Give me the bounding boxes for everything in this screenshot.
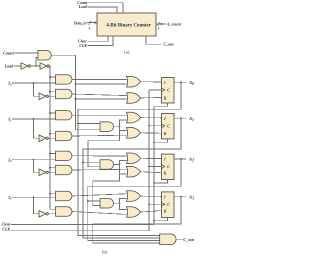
OR gate K3 bbox=[127, 207, 141, 218]
svg-text:C_out: C_out bbox=[183, 237, 195, 242]
wire chain junction up to OR J1 bottom input bbox=[120, 120, 127, 127]
wire CLK rail tap to FF2 C input bbox=[149, 166, 162, 168]
JK flip-flop FF2 bbox=[162, 154, 175, 180]
svg-text:A_count: A_count bbox=[166, 21, 182, 26]
AND gate J3 load term (Load AND I3) bbox=[56, 191, 73, 200]
wire chain junction down to OR K3 input bbox=[120, 203, 127, 209]
AND gate J1 load term (Load AND I1) bbox=[56, 110, 73, 119]
wire Load to block top bbox=[87, 7, 117, 13]
svg-text:I1: I1 bbox=[7, 117, 12, 123]
wire Load rail tap to load AND J0 top input bbox=[50, 76, 56, 78]
AND gate CH2 count chain bbox=[100, 160, 114, 170]
clock edge triangle of FF2 bbox=[162, 165, 165, 169]
wire C_out from block bottom bbox=[146, 36, 162, 44]
svg-text:I2: I2 bbox=[7, 157, 12, 163]
wire count-enable vertical down to chain AND CH1 lower input bbox=[76, 55, 101, 130]
wire I1 input line to AND J1 bbox=[12, 118, 55, 120]
wire FF3 output to A3 node bbox=[174, 196, 186, 198]
wire Count input to AND gate G1 bbox=[14, 52, 38, 54]
wire FF2 output to A2 node bbox=[174, 158, 186, 160]
wire chain junction up to OR J3 bottom input bbox=[120, 198, 127, 203]
inverter G2 (Load invert) bbox=[21, 63, 28, 70]
wire AND K2 output to OR K2 input bbox=[72, 168, 127, 171]
wire OR K3 output to flip-flop FF3 K input bbox=[141, 211, 162, 212]
wire OR K1 output to flip-flop FF1 K input bbox=[141, 132, 162, 134]
svg-text:K: K bbox=[163, 210, 167, 214]
wire Count to block top bbox=[88, 3, 123, 13]
wire chain junction up to OR J2 bottom input bbox=[120, 161, 127, 165]
clock edge triangle of FF1 bbox=[162, 124, 165, 128]
wire chain stage2 continuation down to chain AND CH3 lower input bbox=[93, 174, 120, 206]
OR gate K2 bbox=[127, 166, 141, 177]
wire G1 output to count-enable vertical bbox=[51, 54, 75, 56]
wire Load rail tap to load AND J1 top input bbox=[50, 112, 56, 114]
clock edge triangle of FF3 bbox=[162, 202, 165, 206]
OR gate J1 bbox=[127, 112, 141, 123]
OR gate K1 bbox=[127, 128, 141, 139]
wire OR K2 output to flip-flop FF2 K input bbox=[141, 172, 162, 173]
wire I3 input line to AND J3 bbox=[12, 196, 55, 198]
wire inverter G41 output to AND K1 lower input bbox=[47, 137, 55, 139]
clock edge triangle of FF0 bbox=[162, 88, 165, 92]
wire chain junction down to OR K1 input bbox=[120, 127, 127, 131]
wire AND K0 output to OR K0 input bbox=[72, 94, 127, 96]
wire I0 branch down to inverter G40 bbox=[34, 83, 40, 96]
wire Load rail tap to load AND K0 top input bbox=[50, 91, 56, 93]
JK flip-flop FF3 bbox=[162, 192, 175, 218]
wire C_out gate output bbox=[176, 238, 182, 240]
node junction I1 branch bbox=[33, 118, 35, 120]
wire Load rail tap to load AND K2 top input bbox=[50, 167, 56, 169]
wire I3 branch down to inverter G43 bbox=[34, 197, 40, 214]
wire AND K1 output to OR K1 input bbox=[72, 134, 127, 137]
node junction I2 branch bbox=[33, 159, 35, 161]
AND gate K2 load term (Load AND not-I2) bbox=[56, 165, 72, 174]
wire AND J0 output to OR J0 top input bbox=[72, 78, 127, 80]
inverter G42 (I2 complement) bbox=[39, 169, 46, 176]
svg-text:J: J bbox=[164, 158, 166, 162]
node junction chain stage 2 bbox=[119, 164, 121, 166]
wire FF1 output to A1 node bbox=[174, 117, 186, 119]
JK flip-flop FF0 bbox=[162, 78, 175, 104]
wire CLK rail tap to FF0 C input bbox=[149, 89, 162, 91]
wire count-enable tap to OR K0 bottom input bbox=[76, 98, 127, 100]
wire AND J3 output to OR J3 top input bbox=[72, 194, 127, 196]
wire I2 input line to AND J2 bbox=[12, 159, 55, 161]
svg-text:I0: I0 bbox=[7, 81, 12, 87]
bus slash and width 4 label on Data_in bbox=[89, 21, 91, 25]
wire A3 feedback lane down to C_out gate bbox=[93, 197, 181, 243]
svg-text:(a): (a) bbox=[124, 50, 130, 55]
AND gate J2 load term (Load AND I2) bbox=[56, 151, 73, 160]
AND gate G5 carry output C_out bbox=[160, 234, 176, 245]
node junction chain stage 3 bbox=[119, 202, 121, 204]
svg-text:CLK: CLK bbox=[79, 44, 87, 48]
wire A0 feedback lane down to C_out gate bbox=[78, 82, 181, 235]
wire Load rail tap to load AND K1 top input bbox=[50, 133, 56, 135]
svg-text:4: 4 bbox=[89, 27, 91, 31]
svg-text:Load: Load bbox=[78, 5, 87, 9]
wire chain AND CH2 output to junction bbox=[114, 164, 120, 166]
svg-text:4-Bit Binary Counter: 4-Bit Binary Counter bbox=[106, 24, 151, 29]
wire Load input to inverter G2 bbox=[14, 65, 21, 67]
wire CLK input line bbox=[11, 230, 149, 232]
wire count-enable tap to OR J0 bottom input bbox=[76, 83, 127, 85]
wire CLK rail tap to FF3 C input bbox=[149, 203, 162, 205]
OR gate J2 bbox=[127, 153, 141, 164]
wire I0 input line to AND J0 bbox=[12, 82, 55, 84]
AND gate CH1 count chain bbox=[100, 122, 113, 131]
wire inverter G2 output to inverter G3 bbox=[29, 65, 40, 67]
wire AND J1 output to OR J1 top input bbox=[72, 114, 127, 116]
svg-text:C_out: C_out bbox=[164, 42, 175, 47]
wire A0 feedback tap to chain AND CH1 upper input bbox=[78, 123, 100, 125]
svg-text:CLK: CLK bbox=[2, 228, 10, 232]
wire chain stage1 continuation down to chain AND CH2 lower input bbox=[88, 130, 120, 166]
node junction A0 feedback bbox=[180, 81, 182, 83]
node junction chain stage 1 bbox=[119, 126, 121, 128]
inverter G40 (I0 complement) bbox=[39, 93, 46, 100]
bus slash and width 4 label on A_count bbox=[157, 22, 159, 26]
inverter G41 (I1 complement) bbox=[39, 135, 46, 142]
AND gate G1 (Count AND not-Load) bbox=[38, 50, 51, 60]
wire inverter G3 output to Load rail bbox=[48, 66, 50, 209]
wire Clear input line bbox=[11, 224, 154, 226]
wire CLK rail tap to FF1 C input bbox=[149, 125, 162, 127]
wire FF1 clear loop to Clear rail bbox=[154, 139, 168, 142]
wire CLK rail vertical bbox=[148, 90, 150, 231]
OR gate K0 bbox=[127, 93, 141, 104]
wire OR K0 output to flip-flop FF0 K input bbox=[141, 96, 162, 99]
svg-text:K: K bbox=[163, 132, 167, 136]
AND gate K0 load term (Load AND not-I0) bbox=[56, 89, 72, 98]
svg-text:J: J bbox=[164, 195, 166, 199]
AND gate J0 load term (Load AND I0) bbox=[56, 75, 73, 84]
wire A2 feedback tap to chain AND CH3 upper input bbox=[88, 200, 100, 202]
wire AND K3 output to OR K3 input bbox=[72, 212, 127, 215]
svg-text:J: J bbox=[164, 81, 166, 85]
wire chain AND CH1 output to junction bbox=[114, 126, 120, 128]
wire inverter G43 output to AND K3 lower input bbox=[47, 213, 55, 215]
wire Load rail tap to load AND J2 top input bbox=[50, 153, 56, 155]
svg-text:Clear: Clear bbox=[78, 40, 87, 44]
wire Load-not up into AND gate G1 lower input bbox=[36, 58, 38, 66]
svg-text:4: 4 bbox=[158, 27, 160, 31]
wire A1 feedback lane down to C_out gate bbox=[83, 118, 181, 238]
svg-text:Clear: Clear bbox=[2, 223, 11, 227]
node junction I3 branch bbox=[33, 196, 35, 198]
svg-text:Count: Count bbox=[3, 50, 15, 55]
wire I2 branch down to inverter G42 bbox=[34, 160, 40, 173]
svg-text:K: K bbox=[163, 172, 167, 176]
svg-text:Data_in: Data_in bbox=[73, 22, 87, 26]
inverter G43 (I3 complement) bbox=[39, 211, 46, 218]
node junction I0 branch bbox=[33, 82, 35, 84]
wire OR J3 output to flip-flop FF3 J input bbox=[141, 195, 162, 197]
wire CLK to block bottom bbox=[87, 36, 113, 46]
OR gate J0 bbox=[127, 76, 141, 87]
wire A1 feedback tap to chain AND CH2 upper input bbox=[83, 161, 100, 163]
wire A2 feedback lane down to C_out gate bbox=[88, 159, 181, 241]
wire Clear rail vertical bbox=[153, 106, 155, 224]
wire Load rail tap to load AND J3 top input bbox=[50, 193, 56, 195]
wire chain AND CH3 output to junction bbox=[114, 202, 120, 204]
wire A_count bus out of block with arrowhead bbox=[156, 23, 166, 25]
svg-text:Load: Load bbox=[3, 63, 14, 68]
wire inverter G42 output to AND K2 lower input bbox=[47, 171, 55, 173]
AND gate K3 load term (Load AND not-I3) bbox=[56, 207, 73, 216]
OR gate J3 bbox=[127, 191, 141, 202]
wire chain junction down to OR K2 input bbox=[120, 165, 127, 175]
wire AND J2 output to OR J2 top input bbox=[72, 155, 127, 157]
wire FF0 output to A0 node bbox=[174, 81, 186, 83]
wire I1 branch down to inverter G41 bbox=[34, 119, 40, 138]
AND gate CH3 count chain bbox=[100, 199, 114, 209]
wire FF3 clear loop to Clear rail bbox=[154, 217, 168, 220]
block symbol U1 4-bit binary counter bbox=[97, 13, 156, 36]
svg-text:J: J bbox=[164, 117, 166, 121]
node junction A1 feedback bbox=[180, 117, 182, 119]
JK flip-flop FF1 bbox=[162, 113, 175, 138]
wire FF2 clear loop to Clear rail bbox=[154, 180, 168, 183]
wire inverter G40 output to AND K0 lower input bbox=[47, 95, 55, 97]
node junction A2 feedback bbox=[180, 158, 182, 160]
wire OR J2 output to flip-flop FF2 J input bbox=[141, 157, 162, 159]
wire Load rail tap to load AND K3 top input bbox=[50, 208, 56, 210]
svg-text:K: K bbox=[163, 96, 167, 100]
svg-text:(b): (b) bbox=[102, 250, 108, 255]
wire Data_in bus into block with arrowhead bbox=[87, 22, 95, 24]
wire FF0 clear loop to Clear rail bbox=[154, 103, 168, 106]
wire OR J0 output to flip-flop FF0 J input bbox=[141, 81, 162, 83]
wire Clear to block bottom bbox=[87, 36, 108, 41]
AND gate K1 load term (Load AND not-I1) bbox=[56, 131, 73, 140]
svg-text:I3: I3 bbox=[7, 195, 12, 201]
node junction Load-not bbox=[35, 65, 37, 67]
inverter G3 (Load buffer second inverter) bbox=[40, 63, 47, 70]
node junction A3 feedback bbox=[180, 196, 182, 198]
wire OR J1 output to flip-flop FF1 J input bbox=[141, 117, 162, 119]
